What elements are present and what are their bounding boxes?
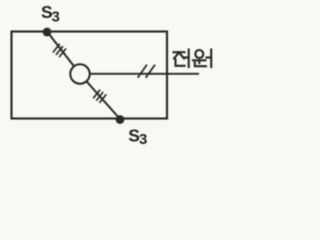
전 : eo vertical bar (188, 50, 190, 68)
원 : u horizontal (193, 59, 206, 61)
원 : u stem (198, 60, 200, 63)
전 : nieun bottom (176, 60, 185, 66)
break marks (///) on upper diagonal wire (53, 44, 66, 57)
paper background (0, 0, 217, 155)
전 : jieut top bar (174, 51, 185, 53)
label 전원 (power source) drawn as strokes (174, 50, 189, 68)
label S3 (top) (41, 2, 60, 26)
node S3 (top junction dot) (43, 28, 52, 37)
전 : eo tick (184, 56, 188, 58)
svg-text:3: 3 (52, 9, 60, 26)
node S3 (bottom junction dot) (116, 115, 125, 124)
break marks (//) on horizontal lead (138, 65, 155, 78)
lamp / meter circle (70, 64, 89, 83)
svg-text:3: 3 (139, 131, 147, 148)
wire: lower diagonal from lamp to S3 bottom (80, 74, 120, 119)
원 : eo vertical bar (210, 50, 212, 68)
wire: horizontal lead to power source (90, 73, 199, 75)
원 : ieung circle (195, 50, 203, 58)
break marks (///) on lower diagonal wire (93, 90, 106, 103)
label S3 (bottom) (128, 125, 147, 148)
원 : nieun bottom (195, 63, 206, 67)
전 : jieut right leg (179, 53, 184, 59)
wire: rectangular loop (12, 32, 168, 119)
전 : jieut left leg (174, 53, 179, 59)
원 : eo tick (207, 56, 212, 58)
wire: upper diagonal from S3 top to lamp (47, 32, 80, 75)
